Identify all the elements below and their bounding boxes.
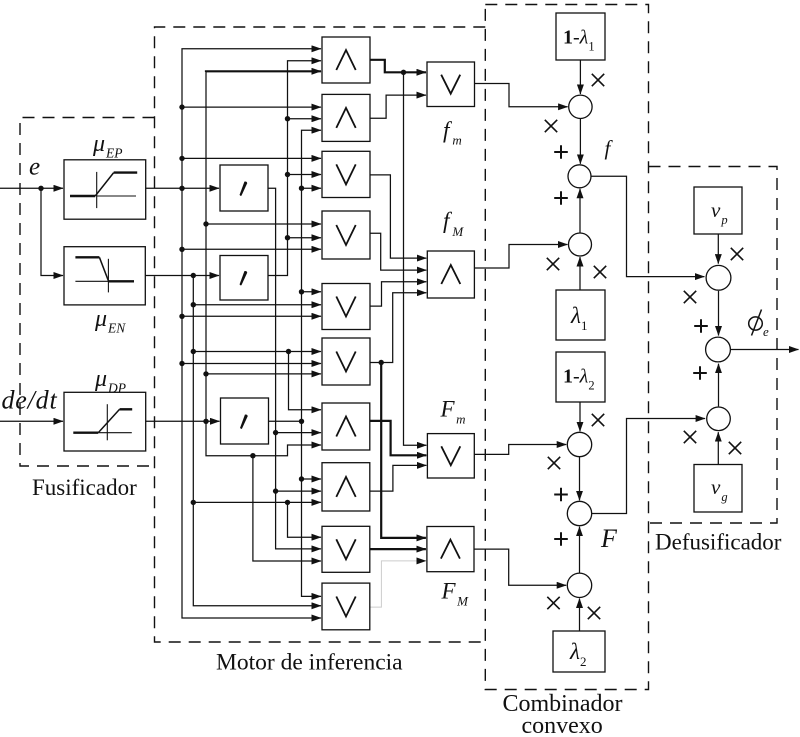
- svg-text:e: e: [763, 324, 769, 339]
- svg-text:Fusificador: Fusificador: [32, 475, 137, 500]
- svg-text:e: e: [29, 154, 40, 181]
- svg-text:de/dt: de/dt: [2, 386, 58, 415]
- svg-text:F: F: [600, 524, 618, 553]
- svg-text:convexo: convexo: [522, 713, 603, 737]
- svg-text:Defusificador: Defusificador: [655, 530, 782, 555]
- svg-text:Motor de inferencia: Motor de inferencia: [216, 650, 403, 676]
